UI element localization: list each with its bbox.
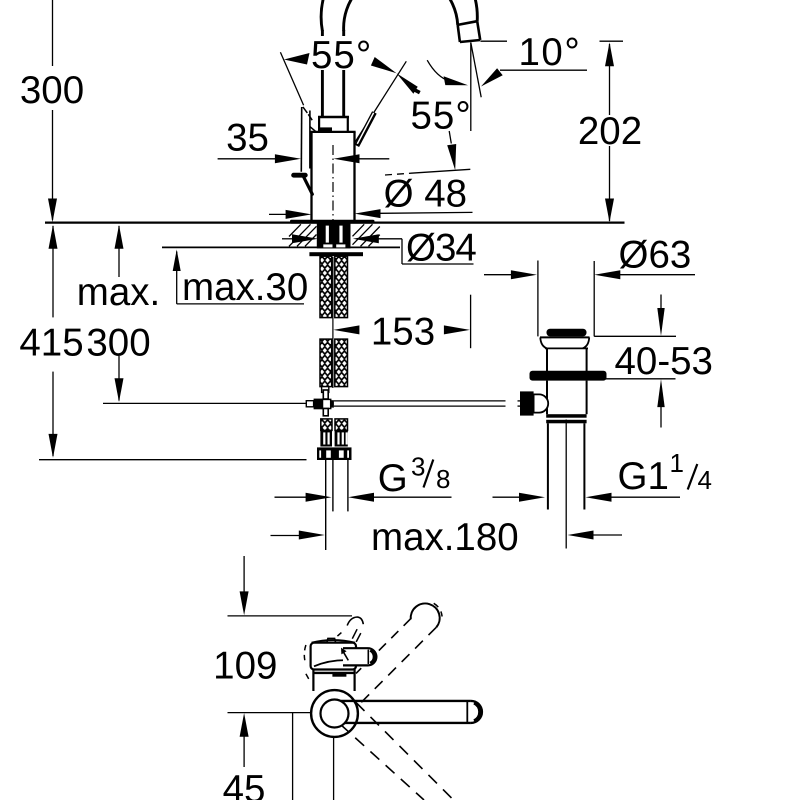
tailpipe centerline (565, 420, 567, 549)
handle chevron line (344, 652, 349, 660)
shank slot 3 (323, 244, 332, 247)
lever grip diagonal (304, 177, 313, 194)
handle base dash (306, 674, 309, 679)
svg-text:max.: max. (77, 271, 160, 314)
dim 109 bottom ref line (228, 712, 311, 714)
hose upper right (335, 256, 348, 317)
hose ribbed left (320, 430, 332, 446)
lever pivot block (320, 127, 332, 132)
coupling black tip (331, 400, 334, 407)
label G38 slash (424, 460, 434, 488)
dim max180 line right (592, 534, 623, 536)
hose centerline lower (332, 339, 334, 388)
lever up position white core (357, 113, 373, 144)
aerator left edge (458, 25, 460, 42)
shank block (317, 223, 351, 248)
dim 109 top ref line (228, 615, 353, 617)
svg-text:35: 35 (226, 117, 269, 160)
55deg2 down arrow (447, 144, 456, 170)
handle base right (354, 670, 356, 692)
dim O34 riser (401, 239, 403, 264)
outlet extension line (481, 40, 508, 42)
lever extreme line L1 (280, 52, 303, 105)
dim 40-53 line top (660, 295, 662, 313)
55deg1 bowtie nub (415, 90, 420, 93)
svg-text:G1: G1 (618, 455, 669, 498)
coupling left sleeve (306, 401, 313, 407)
dim G114 arrow left (586, 493, 612, 502)
svg-text:202: 202 (578, 110, 642, 153)
handle knob thick cap (370, 650, 374, 663)
dim 415 line upper (52, 226, 54, 317)
dim 202 arrow down (605, 199, 614, 223)
svg-text:max.180: max.180 (371, 516, 519, 559)
dim 40-53 arrow down (657, 308, 664, 336)
dim 415 arrow up (49, 225, 58, 249)
dim G38 arrow right (306, 493, 332, 502)
shank slot 4 (336, 244, 345, 247)
dim 40-53 top ref (594, 335, 676, 337)
body right wall (353, 132, 355, 221)
svg-text:4: 4 (698, 465, 712, 495)
rod break segment upper (518, 400, 521, 402)
counter top line (45, 222, 625, 224)
coupling black block (314, 399, 323, 410)
dim 202 arrow up (605, 42, 614, 66)
white mask behind 55deg1 (311, 36, 370, 70)
coupling stem down (323, 409, 328, 416)
lever hidden dash 2 (308, 114, 312, 120)
svg-text:Ø34: Ø34 (406, 227, 476, 270)
ext line below circle (333, 737, 335, 800)
dim 415 line lower (52, 372, 54, 456)
dim 153 arrow left (333, 325, 359, 334)
10deg leader arrow (481, 68, 503, 86)
dim G38 line right (372, 496, 452, 498)
svg-text:55°: 55° (411, 95, 472, 138)
drain body wall left lower (546, 381, 548, 415)
dim 153 arrow right (444, 325, 470, 334)
escutcheon base plate (290, 220, 375, 224)
dim O63 ext left (537, 261, 539, 337)
dim O34 line left (282, 238, 295, 240)
svg-text:G: G (378, 457, 408, 500)
pop-up knob (547, 329, 587, 337)
dim max180 arrow right (299, 531, 325, 540)
swivel arm lower edge dashed (357, 627, 436, 706)
pop-up rod upper line (334, 400, 506, 402)
dim O48 arrow left (286, 210, 312, 219)
dim O63 ext right (593, 261, 595, 336)
dim 300 top line lower (52, 110, 54, 220)
swivel dash slash 3 (337, 633, 341, 637)
svg-text:300: 300 (20, 69, 84, 112)
hex slots (319, 450, 349, 457)
svg-text:153: 153 (371, 311, 435, 354)
dim G114 arrow right (519, 493, 545, 502)
coupling stem up (323, 390, 328, 399)
lever up position thick (357, 112, 375, 145)
shank slot 1 (326, 226, 329, 243)
spout outer arc (321, 0, 477, 31)
flange top edge (540, 336, 590, 338)
spout capsule cap thick arc (474, 703, 480, 722)
handle base left (312, 670, 314, 692)
dim max300 line lower (118, 356, 120, 401)
neck left wall (318, 117, 320, 132)
spout capsule end cap (471, 701, 482, 723)
dim O48 underline (372, 212, 473, 213)
swivel arm far cap (411, 603, 440, 627)
aerator seam (458, 21, 478, 25)
aerator bottom edge (460, 40, 480, 42)
dim O34 underline (402, 263, 474, 265)
shank slot 2 (339, 226, 342, 243)
dim 415 bottom ref line (39, 459, 307, 461)
hose centerline gap (332, 257, 334, 339)
spout inner arc (344, 0, 458, 31)
hose connector (322, 387, 329, 393)
swivel arm cap outer dash (434, 603, 442, 616)
body centerline (332, 145, 334, 222)
55deg2 arc (427, 60, 450, 81)
spout riser outer wall (321, 30, 324, 118)
body top edge (310, 131, 355, 133)
dim 35 line right (348, 158, 389, 160)
ext line left of circle (292, 713, 294, 800)
svg-text:Ø 48: Ø 48 (384, 173, 467, 216)
hatch right (353, 224, 380, 246)
svg-text:Ø63: Ø63 (619, 234, 692, 277)
pop-up rod lower line (334, 405, 506, 407)
dim O63 line right (612, 274, 695, 276)
tailpipe wall right (583, 423, 585, 509)
dim 300 top line upper (52, 0, 54, 66)
drain joint band upper (546, 414, 586, 418)
dim 300 arrow down (48, 199, 57, 223)
svg-text:45: 45 (223, 768, 266, 800)
outlet axis vertical (470, 43, 472, 132)
body circle inner (321, 700, 349, 728)
mounting washer (309, 252, 363, 256)
55deg1 left arrow (284, 53, 310, 65)
dim 45 line (243, 736, 245, 768)
pop-up rod left reference (103, 402, 306, 404)
handle dome notch (327, 638, 336, 642)
body left wall (310, 132, 312, 221)
dim G38 line left (275, 496, 308, 498)
55deg1 bowtie arrow a (371, 57, 397, 73)
spout capsule cap inner line (466, 702, 468, 722)
handle dashed arc left (304, 645, 306, 665)
dim 202 line lower (609, 146, 611, 221)
spout capsule top line (341, 700, 471, 702)
handle base top edge (313, 672, 354, 674)
lever hidden dash 1 (303, 107, 307, 113)
dim O34 arrow right (353, 234, 379, 243)
dim G114 line right (610, 496, 681, 498)
swivel lower arm edge 1 dashed (356, 703, 454, 800)
svg-text:10°: 10° (519, 31, 582, 74)
dim 40-53 bottom ref (597, 378, 676, 380)
55deg2 swivel line dashed part (385, 173, 411, 175)
dim max180 arrow left (568, 531, 594, 540)
svg-text:109: 109 (213, 645, 277, 688)
dim 153 ext line (470, 295, 472, 349)
dim 415 arrow down (49, 434, 58, 458)
svg-text:415: 415 (19, 322, 83, 365)
rod break segment lower (518, 405, 521, 407)
coupling white square (323, 399, 331, 408)
dim max30 vertical (176, 252, 178, 304)
dim 35 arrow right (275, 154, 301, 163)
spout riser inner wall (342, 30, 345, 118)
svg-text:1: 1 (670, 448, 684, 478)
swivel lower arm edge 2 dashed (340, 724, 424, 800)
dim 35 arrow left (334, 154, 360, 163)
dim O34 arrow left (292, 234, 318, 243)
outlet 10deg line (471, 43, 481, 98)
10deg leader line (500, 69, 587, 71)
handle inner curve (314, 660, 352, 666)
dim 202 line upper (609, 44, 611, 115)
flange bottom edge (545, 347, 588, 349)
dim O63 line left (484, 274, 512, 276)
lever hidden dash 3 (310, 127, 316, 132)
clamp screw block (520, 391, 534, 415)
thread line B (332, 460, 334, 511)
drain body wall right lower (586, 381, 588, 415)
lever blade left edge (300, 107, 302, 172)
lever blade right edge (309, 111, 311, 169)
hatch left (289, 224, 317, 246)
dim 35 line left (218, 158, 287, 160)
body circle outer (311, 690, 358, 737)
thread line C (347, 460, 349, 511)
hex nuts (317, 447, 352, 460)
svg-text:8: 8 (436, 464, 450, 494)
tailpipe wall left (547, 423, 549, 509)
dim O48 line left (269, 213, 290, 215)
lever extreme line L2 (355, 61, 407, 142)
swivel dash slash 1 (352, 629, 357, 639)
hose short left crosshatch (321, 419, 332, 431)
locknut (530, 371, 607, 381)
label G114 slash (688, 464, 698, 490)
drain body wall left (546, 348, 548, 371)
dim O63 arrow right (594, 270, 620, 279)
neck top (318, 116, 349, 119)
handle dome (312, 640, 355, 643)
handle knob inner line (367, 650, 369, 664)
hose lower left (320, 339, 332, 387)
drain joint band lower (546, 420, 586, 424)
dim max300 arrow up (115, 225, 124, 249)
svg-text:300: 300 (86, 322, 150, 365)
swivel near cap arc (347, 617, 363, 626)
dim O48 arrow right (355, 209, 381, 218)
neck right wall (347, 117, 349, 132)
55deg1 bowtie arrow b (397, 73, 418, 94)
dim 40-53 arrow up (657, 379, 664, 407)
dim max30 arrow up (173, 250, 181, 272)
hose upper left (320, 256, 332, 317)
dim max180 line left (271, 535, 301, 537)
handle chevron arrow (341, 648, 347, 655)
hose lower right (335, 339, 348, 387)
spout capsule bottom line (345, 722, 471, 724)
55deg2 swivel line solid part (411, 169, 470, 173)
hose ribbed right (335, 430, 348, 446)
dim G38 arrow left (348, 493, 374, 502)
rib slots (323, 432, 348, 444)
55deg2 down arrow link (449, 131, 451, 144)
drain body wall right (586, 348, 588, 371)
swivel dash slash 2 (356, 633, 361, 642)
clamp cylinder (534, 394, 549, 412)
dim 40-53 line bottom (660, 403, 662, 428)
lever grip bar (294, 173, 306, 178)
handle knob (343, 648, 376, 665)
handle base tab (332, 672, 346, 676)
svg-text:max.30: max.30 (182, 266, 308, 309)
aerator right edge (477, 21, 480, 40)
flange left side (540, 337, 547, 348)
dim max300 arrow down (115, 378, 124, 402)
dim 109 line top (243, 556, 245, 593)
swivel arm upper edge dashed (356, 619, 411, 674)
dim O34 line right (376, 238, 402, 240)
hose short right crosshatch (335, 419, 348, 431)
counter bottom line (162, 246, 400, 248)
thread line A (325, 460, 327, 550)
svg-text:3: 3 (411, 452, 425, 482)
dim max300 line upper (118, 226, 120, 277)
dim O63 arrow left (511, 270, 537, 279)
svg-text:40-53: 40-53 (615, 340, 713, 383)
handle box (311, 643, 356, 670)
dim 109 arrow down (240, 591, 249, 615)
55deg2 arc arrow (444, 76, 468, 85)
dim 109 arrow up (240, 713, 249, 737)
dim 202 top tick (600, 40, 624, 42)
svg-text:55°: 55° (311, 34, 372, 77)
dim G114 line left (493, 496, 521, 498)
flange right side (583, 337, 590, 348)
dim max30 underline (177, 303, 304, 305)
